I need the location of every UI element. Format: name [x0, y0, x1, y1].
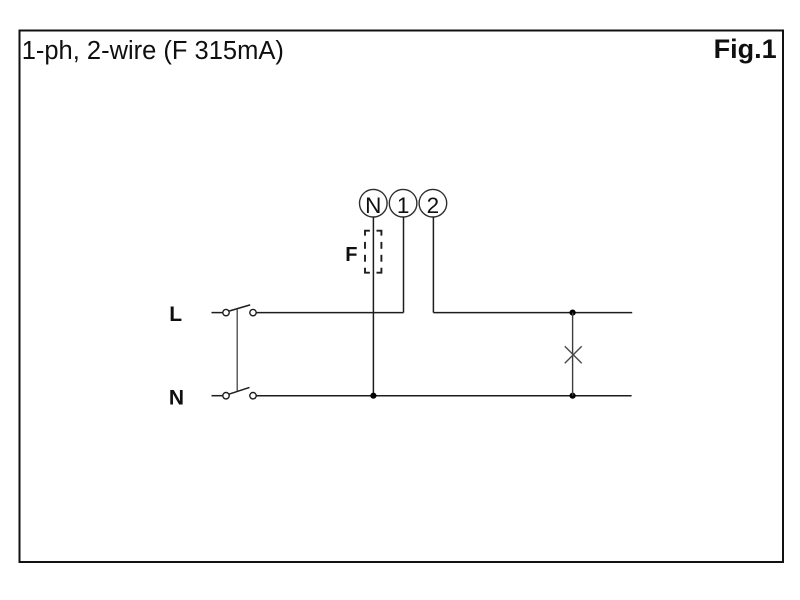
wire terminal 1 down to L line — [403, 217, 405, 313]
L wire from terminal 2 to lamp branch — [433, 312, 632, 314]
terminal 2 — [419, 189, 447, 218]
L lead-in wire — [212, 312, 223, 314]
switch S1 pole contact — [223, 309, 229, 315]
switch mechanical link — [236, 309, 238, 392]
lamp branch wire — [572, 313, 574, 396]
junction dot L wire / lamp branch — [570, 310, 576, 316]
svg-text:L: L — [169, 303, 182, 326]
svg-text:1-ph, 2-wire (F 315mA): 1-ph, 2-wire (F 315mA) — [22, 37, 284, 65]
svg-text:Fig.1: Fig.1 — [714, 34, 777, 64]
svg-text:N: N — [169, 386, 184, 409]
switch S1 blade — [229, 305, 250, 311]
switch S2 pole contact — [223, 393, 229, 399]
N lead-in wire — [212, 395, 223, 397]
junction dot N wire / terminal N — [370, 393, 376, 399]
terminal N — [360, 189, 388, 218]
svg-text:F: F — [345, 244, 357, 266]
terminal 1 — [389, 189, 417, 218]
L wire to terminal 1 — [256, 312, 403, 314]
svg-text:2: 2 — [427, 193, 440, 218]
junction dot N wire / lamp branch — [570, 393, 576, 399]
svg-text:N: N — [365, 193, 381, 218]
switch S1 throw contact — [250, 309, 256, 315]
switch S2 throw contact — [250, 393, 256, 399]
wire terminal N down to N line — [372, 217, 374, 396]
lamp symbol X — [565, 346, 582, 363]
fuse F dashed box — [365, 231, 381, 273]
N wire — [256, 395, 631, 397]
svg-text:1: 1 — [397, 193, 410, 218]
wire terminal 2 down to L line — [432, 217, 434, 313]
switch S2 blade — [229, 387, 249, 394]
